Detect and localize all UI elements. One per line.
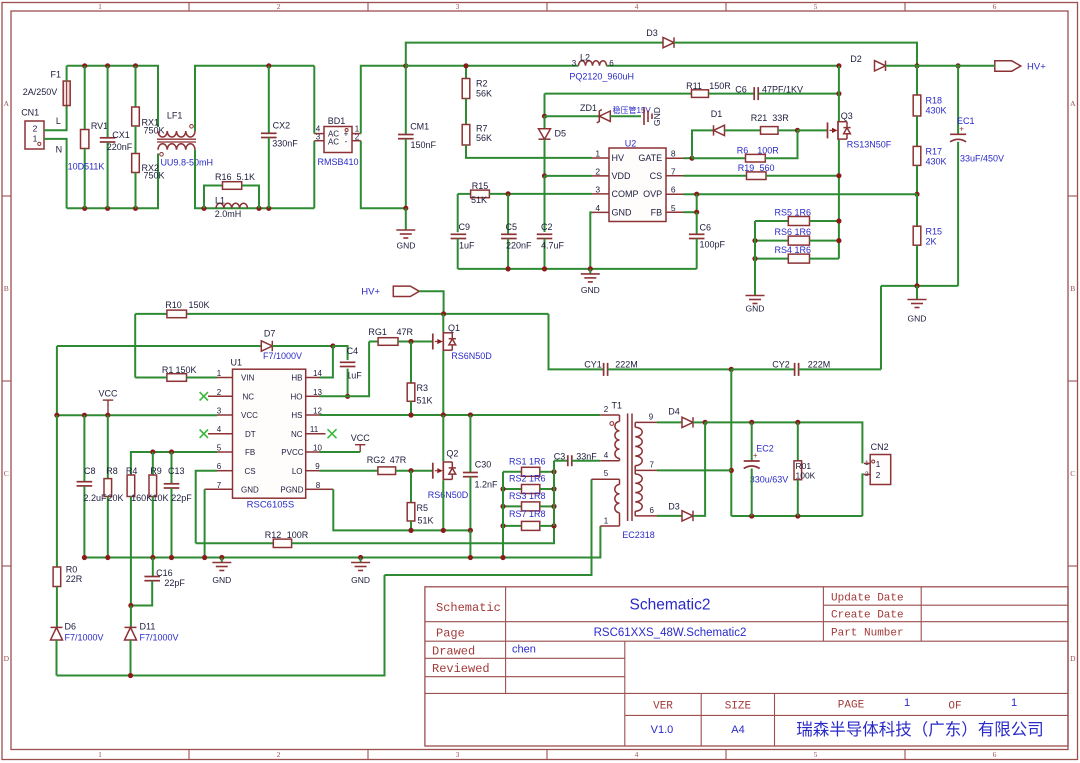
svg-text:R21: R21	[751, 113, 768, 123]
wire LF1 upper right to top bus segment 2	[195, 66, 314, 131]
svg-text:6: 6	[217, 462, 222, 471]
svg-text:R7: R7	[476, 124, 488, 134]
svg-text:GND: GND	[652, 107, 662, 126]
junction bus A C30	[468, 555, 473, 560]
wire OVP to FB tie	[696, 194, 698, 212]
svg-text:DT: DT	[245, 430, 256, 439]
junction gnd bus R15	[914, 283, 919, 288]
svg-text:3: 3	[595, 185, 600, 195]
svg-text:GND: GND	[746, 304, 765, 314]
svg-text:5: 5	[671, 203, 676, 213]
resistor R12	[196, 542, 274, 544]
junction HS R3	[408, 412, 413, 417]
svg-text:Schematic2: Schematic2	[630, 597, 711, 614]
svg-text:F7/1000V: F7/1000V	[140, 633, 179, 643]
svg-text:220nF: 220nF	[506, 241, 532, 251]
svg-text:150nF: 150nF	[411, 140, 437, 150]
junction top bus RV1	[82, 63, 87, 68]
junction PGND Q2	[441, 528, 446, 533]
junction Q3 drain R11 line	[836, 91, 841, 96]
svg-text:D7: D7	[264, 329, 276, 339]
junction bus A gnd1	[219, 555, 224, 560]
wire R7 to U2 HV pin	[466, 145, 592, 158]
svg-text:5: 5	[814, 2, 818, 11]
svg-text:R01: R01	[796, 461, 812, 471]
svg-text:C6: C6	[735, 85, 747, 95]
svg-text:160K: 160K	[131, 493, 152, 503]
svg-text:C: C	[1070, 469, 1075, 478]
svg-text:330u/63V: 330u/63V	[750, 475, 789, 485]
wire D7 cathode to HB node	[272, 345, 333, 347]
junction VCC R8	[105, 413, 110, 418]
svg-text:47R: 47R	[390, 455, 407, 465]
gnd bus right	[881, 285, 958, 287]
wire R17 to OVP junction	[916, 165, 918, 194]
capacitor C4	[340, 361, 356, 363]
svg-text:D4: D4	[668, 407, 680, 417]
capacitor CY1	[603, 363, 605, 376]
resistor R0	[56, 415, 58, 567]
svg-text:VDD: VDD	[612, 171, 632, 181]
wire ZD1 anode to gnd	[610, 115, 641, 117]
resistor R4	[127, 475, 135, 497]
wire riser to D3 line	[406, 43, 663, 66]
wire FB line	[131, 452, 217, 475]
junction D11 top	[128, 603, 133, 608]
junction CX2 top	[266, 63, 271, 68]
wire gate node to Q3	[798, 129, 828, 131]
wire R11 line from D5 column	[545, 93, 692, 95]
svg-text:GND: GND	[581, 285, 600, 295]
svg-text:11: 11	[310, 425, 319, 434]
svg-text:220nF: 220nF	[107, 142, 133, 152]
svg-text:R8: R8	[106, 466, 118, 476]
wire OVP line	[684, 193, 918, 195]
svg-text:7: 7	[217, 481, 222, 490]
wire CN2 pin2 to return row	[862, 474, 864, 516]
junction RS2 right	[551, 486, 556, 491]
junction RG2 R5	[408, 468, 413, 473]
svg-text:R15: R15	[926, 227, 943, 237]
junction Q3 gate node	[795, 128, 800, 133]
svg-text:OF: OF	[948, 701, 961, 713]
capacitor C6 47PF	[753, 87, 755, 100]
junction D4 output	[703, 420, 708, 425]
svg-text:22R: 22R	[66, 574, 83, 584]
resistor R16	[204, 186, 223, 209]
svg-text:R18: R18	[926, 96, 943, 106]
svg-text:PQ2120_960uH: PQ2120_960uH	[569, 71, 634, 81]
svg-text:2: 2	[595, 167, 600, 177]
diode D3	[663, 37, 674, 47]
svg-text:D11: D11	[140, 622, 156, 632]
svg-text:F7/1000V: F7/1000V	[65, 633, 104, 643]
bridge rectifier BD1	[324, 127, 352, 153]
resistor R11	[692, 90, 709, 98]
junction OVP divider	[914, 192, 919, 197]
junction L1 left	[201, 206, 206, 211]
svg-text:FB: FB	[651, 208, 663, 218]
wire C6 to Q3 drain column	[759, 93, 839, 95]
resistor RS6	[755, 240, 788, 242]
svg-text:56K: 56K	[476, 133, 492, 143]
wire Q1 source to HS	[442, 351, 444, 415]
svg-text:C13: C13	[168, 466, 185, 476]
junction EC1 top	[956, 63, 961, 68]
svg-text:R2: R2	[476, 79, 488, 89]
svg-text:UU9.8-50mH: UU9.8-50mH	[160, 158, 213, 168]
junction top bus CX1	[105, 63, 110, 68]
junction bus A R9 C16	[150, 555, 155, 560]
capacitor C2	[537, 233, 553, 235]
svg-text:VCC: VCC	[241, 411, 258, 420]
svg-text:FB: FB	[245, 448, 255, 457]
junction GATE node	[689, 156, 694, 161]
svg-text:Q2: Q2	[446, 449, 458, 459]
svg-text:D3: D3	[646, 28, 658, 38]
svg-text:560: 560	[759, 163, 774, 173]
wire U2 gnd pin down	[590, 212, 592, 269]
svg-text:HB: HB	[291, 374, 302, 383]
svg-text:1: 1	[904, 697, 910, 709]
svg-text:B: B	[4, 284, 9, 293]
wire RS bank left column lower	[502, 472, 504, 558]
svg-text:CN2: CN2	[871, 442, 889, 452]
wire D4 cathode to node	[693, 421, 705, 423]
wire HB node to C4	[333, 346, 348, 360]
junction CT pin7	[729, 468, 734, 473]
junction CX2 bottom	[266, 206, 271, 211]
junction RG1 R3	[408, 339, 413, 344]
svg-text:A4: A4	[731, 724, 744, 736]
capacitor C6 100pF	[696, 212, 698, 234]
resistor RS5	[755, 220, 788, 222]
junction gnd bus C2	[542, 266, 547, 271]
resistor R8	[107, 415, 109, 478]
capacitor C30	[469, 415, 471, 473]
junction RS2 left	[500, 486, 505, 491]
svg-text:2.0mH: 2.0mH	[215, 209, 242, 219]
svg-text:AC: AC	[328, 138, 339, 147]
svg-text:HV: HV	[612, 153, 625, 163]
wire PVCC line	[320, 451, 361, 453]
junction HS C30	[468, 412, 473, 417]
svg-text:1uF: 1uF	[459, 241, 475, 251]
svg-text:CM1: CM1	[410, 121, 429, 131]
junction rail C D11	[128, 673, 133, 678]
wire VDD node to U2 pin2	[545, 175, 593, 177]
diode D7	[261, 341, 272, 351]
svg-text:C: C	[4, 469, 9, 478]
capacitor C13	[171, 452, 173, 484]
svg-text:C3: C3	[554, 451, 566, 461]
junction R2 top	[463, 63, 468, 68]
junction VDD node	[542, 173, 547, 178]
svg-text:14: 14	[313, 369, 322, 378]
ground at CM1	[405, 208, 407, 230]
svg-text:R10: R10	[165, 300, 182, 310]
svg-text:HV+: HV+	[1027, 61, 1046, 72]
svg-text:R6: R6	[737, 145, 749, 155]
svg-text:PAGE: PAGE	[838, 700, 865, 712]
svg-text:RV1: RV1	[91, 121, 108, 131]
junction RS7 right	[551, 523, 556, 528]
capacitor C5	[507, 194, 509, 234]
svg-text:N: N	[56, 145, 63, 155]
wire Q2 drain	[442, 415, 444, 461]
transformer T1 secondary winding lower	[635, 474, 642, 511]
junction Q3 source R19	[836, 173, 841, 178]
junction FB C6	[694, 210, 699, 215]
svg-text:NC: NC	[243, 393, 255, 402]
svg-text:6: 6	[993, 750, 997, 759]
svg-text:C9: C9	[459, 222, 471, 232]
svg-text:6: 6	[671, 185, 676, 195]
svg-text:A: A	[4, 99, 10, 108]
diode D11	[130, 606, 132, 628]
wire T1 pin7 line	[657, 469, 731, 471]
svg-text:CY2: CY2	[772, 360, 790, 370]
svg-text:L: L	[56, 116, 61, 126]
transformer T1 primary winding	[600, 414, 619, 416]
inductor L2	[579, 61, 607, 66]
svg-text:CS: CS	[245, 467, 256, 476]
svg-text:PVCC: PVCC	[281, 448, 303, 457]
svg-text:1uF: 1uF	[346, 371, 362, 381]
transformer T1 core	[627, 414, 629, 522]
svg-text:RS1 1R6: RS1 1R6	[509, 457, 546, 467]
capacitor CX1	[107, 66, 109, 138]
junction bottom bus RV1	[82, 206, 87, 211]
junction RS6 left	[752, 238, 757, 243]
svg-text:D1: D1	[711, 109, 723, 119]
junction HV rail Q1	[441, 311, 446, 316]
svg-text:L2: L2	[580, 52, 590, 62]
svg-text:Q1: Q1	[448, 323, 460, 333]
svg-text:9: 9	[649, 413, 654, 422]
svg-text:51K: 51K	[418, 516, 434, 526]
svg-text:3: 3	[456, 750, 460, 759]
diode D2	[875, 61, 886, 71]
junction PGND C30	[468, 528, 473, 533]
svg-text:150K: 150K	[188, 300, 209, 310]
wire FB pin line	[684, 211, 697, 213]
no-connect X pin11	[328, 429, 337, 438]
port HV+ top right	[995, 61, 1021, 71]
svg-text:750K: 750K	[144, 171, 165, 181]
wire AC bottom bus segment 1	[67, 154, 158, 209]
wire R15 to gnd bus	[916, 245, 918, 286]
svg-text:RG2: RG2	[367, 455, 386, 465]
svg-text:5.1K: 5.1K	[237, 172, 256, 182]
svg-text:R17: R17	[926, 147, 943, 157]
resistor RG1	[369, 341, 378, 343]
capacitor C16	[152, 558, 154, 577]
junction C5 top	[506, 191, 511, 196]
svg-text:RSC61XXS_48W.Schematic2: RSC61XXS_48W.Schematic2	[594, 627, 747, 639]
svg-text:T1: T1	[612, 401, 623, 411]
junction gnd bus C5	[506, 266, 511, 271]
svg-text:F7/1000V: F7/1000V	[263, 351, 302, 361]
svg-text:2: 2	[604, 405, 609, 414]
svg-text:COMP: COMP	[612, 189, 639, 199]
svg-text:Update Date: Update Date	[831, 593, 904, 605]
junction DC bus CM1	[403, 63, 408, 68]
resistor RS2	[503, 488, 522, 490]
svg-text:Q3: Q3	[841, 111, 853, 121]
junction Q3 drain node	[836, 63, 841, 68]
svg-text:22pF: 22pF	[171, 493, 192, 503]
svg-text:2: 2	[217, 388, 222, 397]
svg-text:150R: 150R	[709, 81, 731, 91]
transformer T1 secondary winding upper	[634, 422, 636, 427]
svg-text:F1: F1	[51, 70, 62, 80]
svg-text:1: 1	[604, 517, 609, 526]
svg-text:3: 3	[217, 407, 222, 416]
svg-text:5: 5	[814, 750, 818, 759]
svg-text:RS3 1R8: RS3 1R8	[509, 491, 546, 501]
svg-text:1: 1	[98, 750, 102, 759]
junction FB R9	[150, 449, 155, 454]
svg-text:C16: C16	[156, 568, 173, 578]
wire D5 column top	[544, 94, 546, 117]
svg-text:20K: 20K	[107, 493, 123, 503]
wire HS line	[320, 414, 601, 416]
wire output return row	[731, 515, 862, 517]
wire Q3 drain column	[838, 66, 840, 121]
svg-text:2K: 2K	[926, 237, 937, 247]
svg-text:U1: U1	[231, 358, 243, 368]
svg-text:VER: VER	[653, 701, 673, 713]
svg-text:222M: 222M	[615, 360, 638, 370]
wire R11 to C6	[709, 93, 754, 95]
wire T1 pin9 to D4	[657, 421, 682, 423]
wire BD1 pin4 to AC top bus	[313, 66, 315, 134]
resistor R2	[465, 66, 467, 79]
svg-text:D5: D5	[555, 129, 567, 139]
wire Q3 source down	[838, 140, 840, 259]
resistor R15 2K	[916, 194, 918, 226]
svg-text:D6: D6	[65, 622, 77, 632]
svg-text:GND: GND	[908, 314, 927, 324]
diode D3 secondary	[682, 511, 693, 521]
svg-text:4.7uF: 4.7uF	[541, 241, 565, 251]
svg-text:R11: R11	[686, 81, 702, 91]
capacitor EC1	[957, 66, 959, 135]
transistor Q1	[432, 334, 434, 350]
svg-text:R1: R1	[162, 365, 174, 375]
wire D1 cathode column	[692, 130, 714, 158]
wire RS bank right column lower	[553, 461, 555, 526]
svg-text:EC1: EC1	[957, 116, 975, 126]
svg-text:3: 3	[572, 59, 577, 68]
junction OVP FB tie	[694, 192, 699, 197]
wire R15 to COMP	[489, 193, 592, 195]
junction bus A U1 gnd	[202, 555, 207, 560]
junction bottom bus RX2	[133, 206, 138, 211]
svg-text:EC2: EC2	[756, 443, 774, 453]
svg-text:100R: 100R	[757, 145, 779, 155]
svg-text:BD1: BD1	[328, 116, 346, 126]
common-mode choke LF1	[158, 131, 195, 137]
svg-text:C6: C6	[700, 223, 712, 233]
svg-text:2.2uF: 2.2uF	[83, 493, 107, 503]
resistor R17	[916, 116, 918, 146]
wire CS line	[196, 471, 217, 544]
resistor RG2	[378, 467, 396, 475]
wire LF1 lower right to bottom bus segment 2	[195, 150, 314, 209]
svg-text:1: 1	[1011, 697, 1017, 709]
diode D1	[714, 125, 725, 135]
wire Q2 source	[442, 480, 444, 530]
svg-text:D: D	[1070, 654, 1076, 663]
wire HV line to CY corner	[549, 314, 604, 370]
junction bus A RS left	[500, 555, 505, 560]
svg-text:100pF: 100pF	[700, 240, 726, 250]
capacitor C9	[457, 194, 459, 232]
wire GATE pin line	[684, 157, 693, 159]
svg-text:10K: 10K	[152, 493, 168, 503]
svg-text:VCC: VCC	[351, 433, 371, 443]
svg-text:5: 5	[604, 469, 609, 478]
svg-text:47R: 47R	[396, 327, 413, 337]
svg-text:RS6 1R6: RS6 1R6	[775, 227, 812, 237]
junction CM1 ground	[403, 206, 408, 211]
capacitor CM1	[405, 66, 407, 135]
svg-text:1: 1	[876, 459, 881, 469]
svg-text:4: 4	[635, 750, 639, 759]
resistor R5	[410, 471, 412, 503]
no-connect X pin4	[200, 430, 208, 438]
svg-text:430K: 430K	[926, 106, 947, 116]
wire CT column	[730, 369, 732, 516]
junction bus A gnd2	[358, 555, 363, 560]
svg-text:1: 1	[217, 369, 222, 378]
junction bottom bus CX1	[105, 206, 110, 211]
resistor R19	[684, 175, 747, 177]
resistor RX2	[135, 126, 137, 154]
capacitor C8	[83, 415, 85, 482]
svg-text:R3: R3	[417, 383, 429, 393]
svg-text:CN1: CN1	[21, 108, 39, 118]
svg-text:RSC6105S: RSC6105S	[247, 500, 295, 511]
svg-text:7: 7	[649, 461, 654, 470]
IC U1	[233, 369, 306, 498]
svg-text:2: 2	[876, 470, 881, 480]
wire D3 cathode up to output node	[693, 422, 705, 516]
svg-text:R15: R15	[472, 181, 489, 191]
capacitor CY2	[731, 368, 794, 370]
svg-text:100R: 100R	[287, 530, 309, 540]
rail C bottom	[57, 575, 385, 676]
capacitor EC2	[751, 422, 753, 461]
wire D2 cathode to port	[886, 65, 995, 67]
svg-text:L1: L1	[215, 195, 225, 205]
wire D1 to R21	[725, 129, 761, 131]
junction R01 bottom	[795, 513, 800, 518]
svg-text:OVP: OVP	[643, 189, 662, 199]
svg-text:B: B	[1070, 284, 1075, 293]
svg-text:7: 7	[671, 167, 676, 177]
zener diode ZD1	[545, 115, 600, 117]
port HV+ mid	[393, 286, 419, 296]
wire BD1 pin3 to AC bottom bus	[313, 141, 315, 209]
junction VCC C8	[82, 413, 87, 418]
diode D6	[56, 587, 58, 628]
junction RS6 right	[836, 238, 841, 243]
svg-text:C8: C8	[84, 466, 96, 476]
transformer T1 aux winding	[592, 478, 620, 480]
